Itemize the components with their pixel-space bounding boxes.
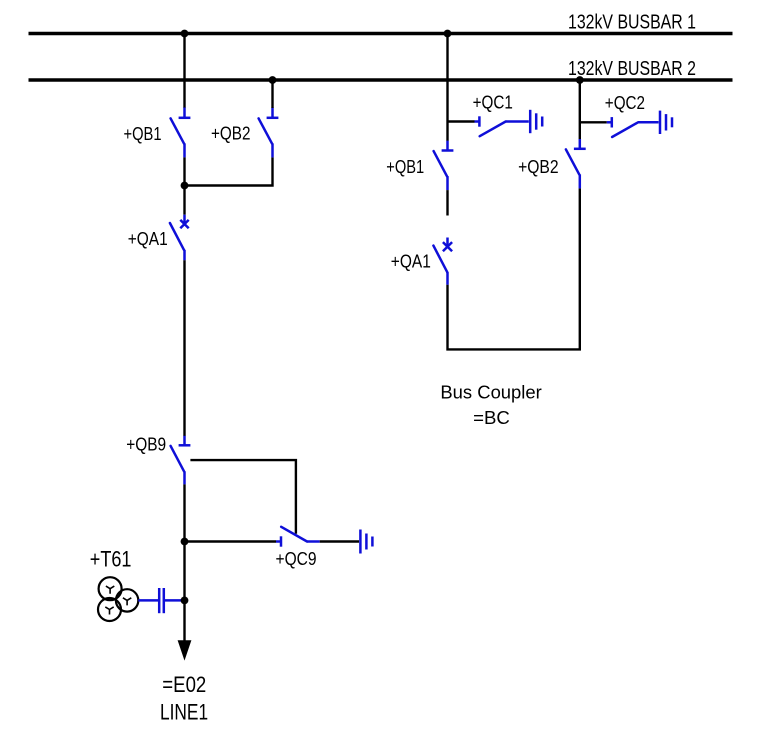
svg-text:+QB9: +QB9 xyxy=(126,433,166,454)
svg-text:+T61: +T61 xyxy=(90,546,132,571)
transformer T61 (combined instrument transformer, 3 windings) xyxy=(98,577,138,621)
wire QB1 to junction node xyxy=(183,157,185,185)
circuit breaker QA1 (right bay) xyxy=(433,238,452,285)
svg-text:Bus Coupler: Bus Coupler xyxy=(440,381,541,402)
node junction at QC9 tap xyxy=(181,538,189,546)
wire QB2 up to busbar 2 xyxy=(579,80,581,139)
circuit breaker QA1 (left bay) xyxy=(170,215,189,261)
svg-text:LINE1: LINE1 xyxy=(160,700,208,725)
wire QA1 down and coupler bottom loop to QB2 xyxy=(448,188,580,349)
earthing switch QC1 xyxy=(448,116,529,136)
node junction below QB1/QB2 xyxy=(181,182,189,190)
svg-text:+QA1: +QA1 xyxy=(128,228,168,249)
busbar 2 (132kV BUSBAR 2) xyxy=(29,78,733,81)
svg-text:+QC9: +QC9 xyxy=(276,548,317,569)
wire QC9 junction down to line arrow xyxy=(183,542,185,642)
svg-text:+QA1: +QA1 xyxy=(391,251,431,272)
node junction on busbar 1 (coupler tap) xyxy=(444,30,452,38)
wire busbar1 down to QB1 (right) xyxy=(446,34,448,141)
line arrow (feeder exit) xyxy=(178,640,192,660)
wire junction to QB2 branch (horizontal + vertical) xyxy=(185,157,273,185)
svg-text:+QC2: +QC2 xyxy=(605,92,645,113)
wire QB2 up to busbar 2 xyxy=(271,80,273,108)
disconnector QB2 (right bay) xyxy=(566,139,586,188)
busbar 1 (132kV BUSBAR 1) xyxy=(29,32,733,35)
earthing switch QC2 xyxy=(580,117,659,137)
wire busbar1 down to QB1 xyxy=(183,34,185,109)
disconnector QB9 xyxy=(171,436,191,485)
disconnector QB2 (left bay) xyxy=(259,108,279,158)
earthing switch QC9 xyxy=(185,527,360,547)
ground symbol (QC9 earth) xyxy=(360,530,372,554)
svg-text:+QB1: +QB1 xyxy=(124,123,162,144)
node T61 tap on main line xyxy=(181,597,189,605)
winding Y marks T61 xyxy=(105,586,131,614)
node junction on busbar 1 (feeder tap) xyxy=(181,30,189,38)
svg-text:+QB2: +QB2 xyxy=(518,156,559,177)
wire QB1 stub (open end toward QA1) xyxy=(446,190,448,215)
svg-text:132kV BUSBAR 2: 132kV BUSBAR 2 xyxy=(568,58,696,80)
wire QA1 down to QB9 xyxy=(183,260,185,436)
svg-text:=BC: =BC xyxy=(473,407,510,428)
disconnector QB1 (left bay) xyxy=(171,108,191,158)
disconnector QB1 (right bay) xyxy=(434,141,454,190)
svg-text:+QB1: +QB1 xyxy=(386,156,424,177)
wire T61 to main line (capacitor coupling) xyxy=(138,588,182,613)
ground symbol (QC2 earth) xyxy=(660,111,672,134)
svg-text:+QB2: +QB2 xyxy=(211,122,251,143)
node junction on busbar 2 (QB2 tap) xyxy=(269,76,277,84)
node junction on busbar 2 (QB2 tap right) xyxy=(576,76,584,84)
wire QB9 bypass loop to QC9 blade xyxy=(190,460,296,534)
ground symbol (QC1 earth) xyxy=(530,110,542,133)
svg-text:132kV BUSBAR 1: 132kV BUSBAR 1 xyxy=(568,12,696,34)
svg-text:+QC1: +QC1 xyxy=(473,92,513,113)
wire QB9 down to QC9 junction xyxy=(183,484,185,541)
svg-text:=E02: =E02 xyxy=(162,672,206,697)
wire junction down to QA1 xyxy=(183,186,185,215)
